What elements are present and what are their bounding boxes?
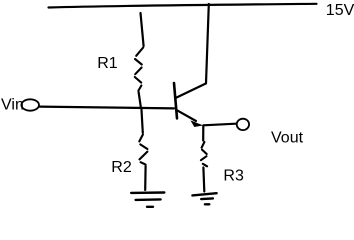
wire: collector to rail <box>206 4 209 83</box>
svg-text:15V: 15V <box>326 2 354 19</box>
wire: R2 bottom to ground <box>144 166 147 190</box>
ground (R2) <box>131 193 164 207</box>
wire: emitter node down to R3 <box>202 126 204 141</box>
transistor Q1 (NPN) <box>174 83 206 126</box>
wire: R3 bottom to ground <box>202 168 205 192</box>
wire: +15V supply rail <box>49 4 317 8</box>
wire: emitter node to Vout terminal <box>203 124 235 126</box>
wire: base node down to R2 <box>141 108 142 133</box>
svg-text:R1: R1 <box>97 55 118 72</box>
svg-text:R2: R2 <box>111 159 132 176</box>
svg-text:R3: R3 <box>223 167 244 184</box>
terminal: Vout output circle <box>237 119 249 130</box>
terminal: Vin input circle <box>21 99 39 110</box>
resistor R1 <box>135 48 143 91</box>
resistor R3 <box>201 142 207 166</box>
wire: R1 bottom to base node <box>139 92 141 107</box>
svg-text:Vout: Vout <box>271 130 304 147</box>
wire: Vin to transistor base <box>40 107 175 109</box>
ground (R3) <box>192 193 216 204</box>
resistor R2 <box>139 135 147 165</box>
svg-text:Vin: Vin <box>1 96 24 113</box>
wire: rail to R1 top <box>141 13 144 46</box>
